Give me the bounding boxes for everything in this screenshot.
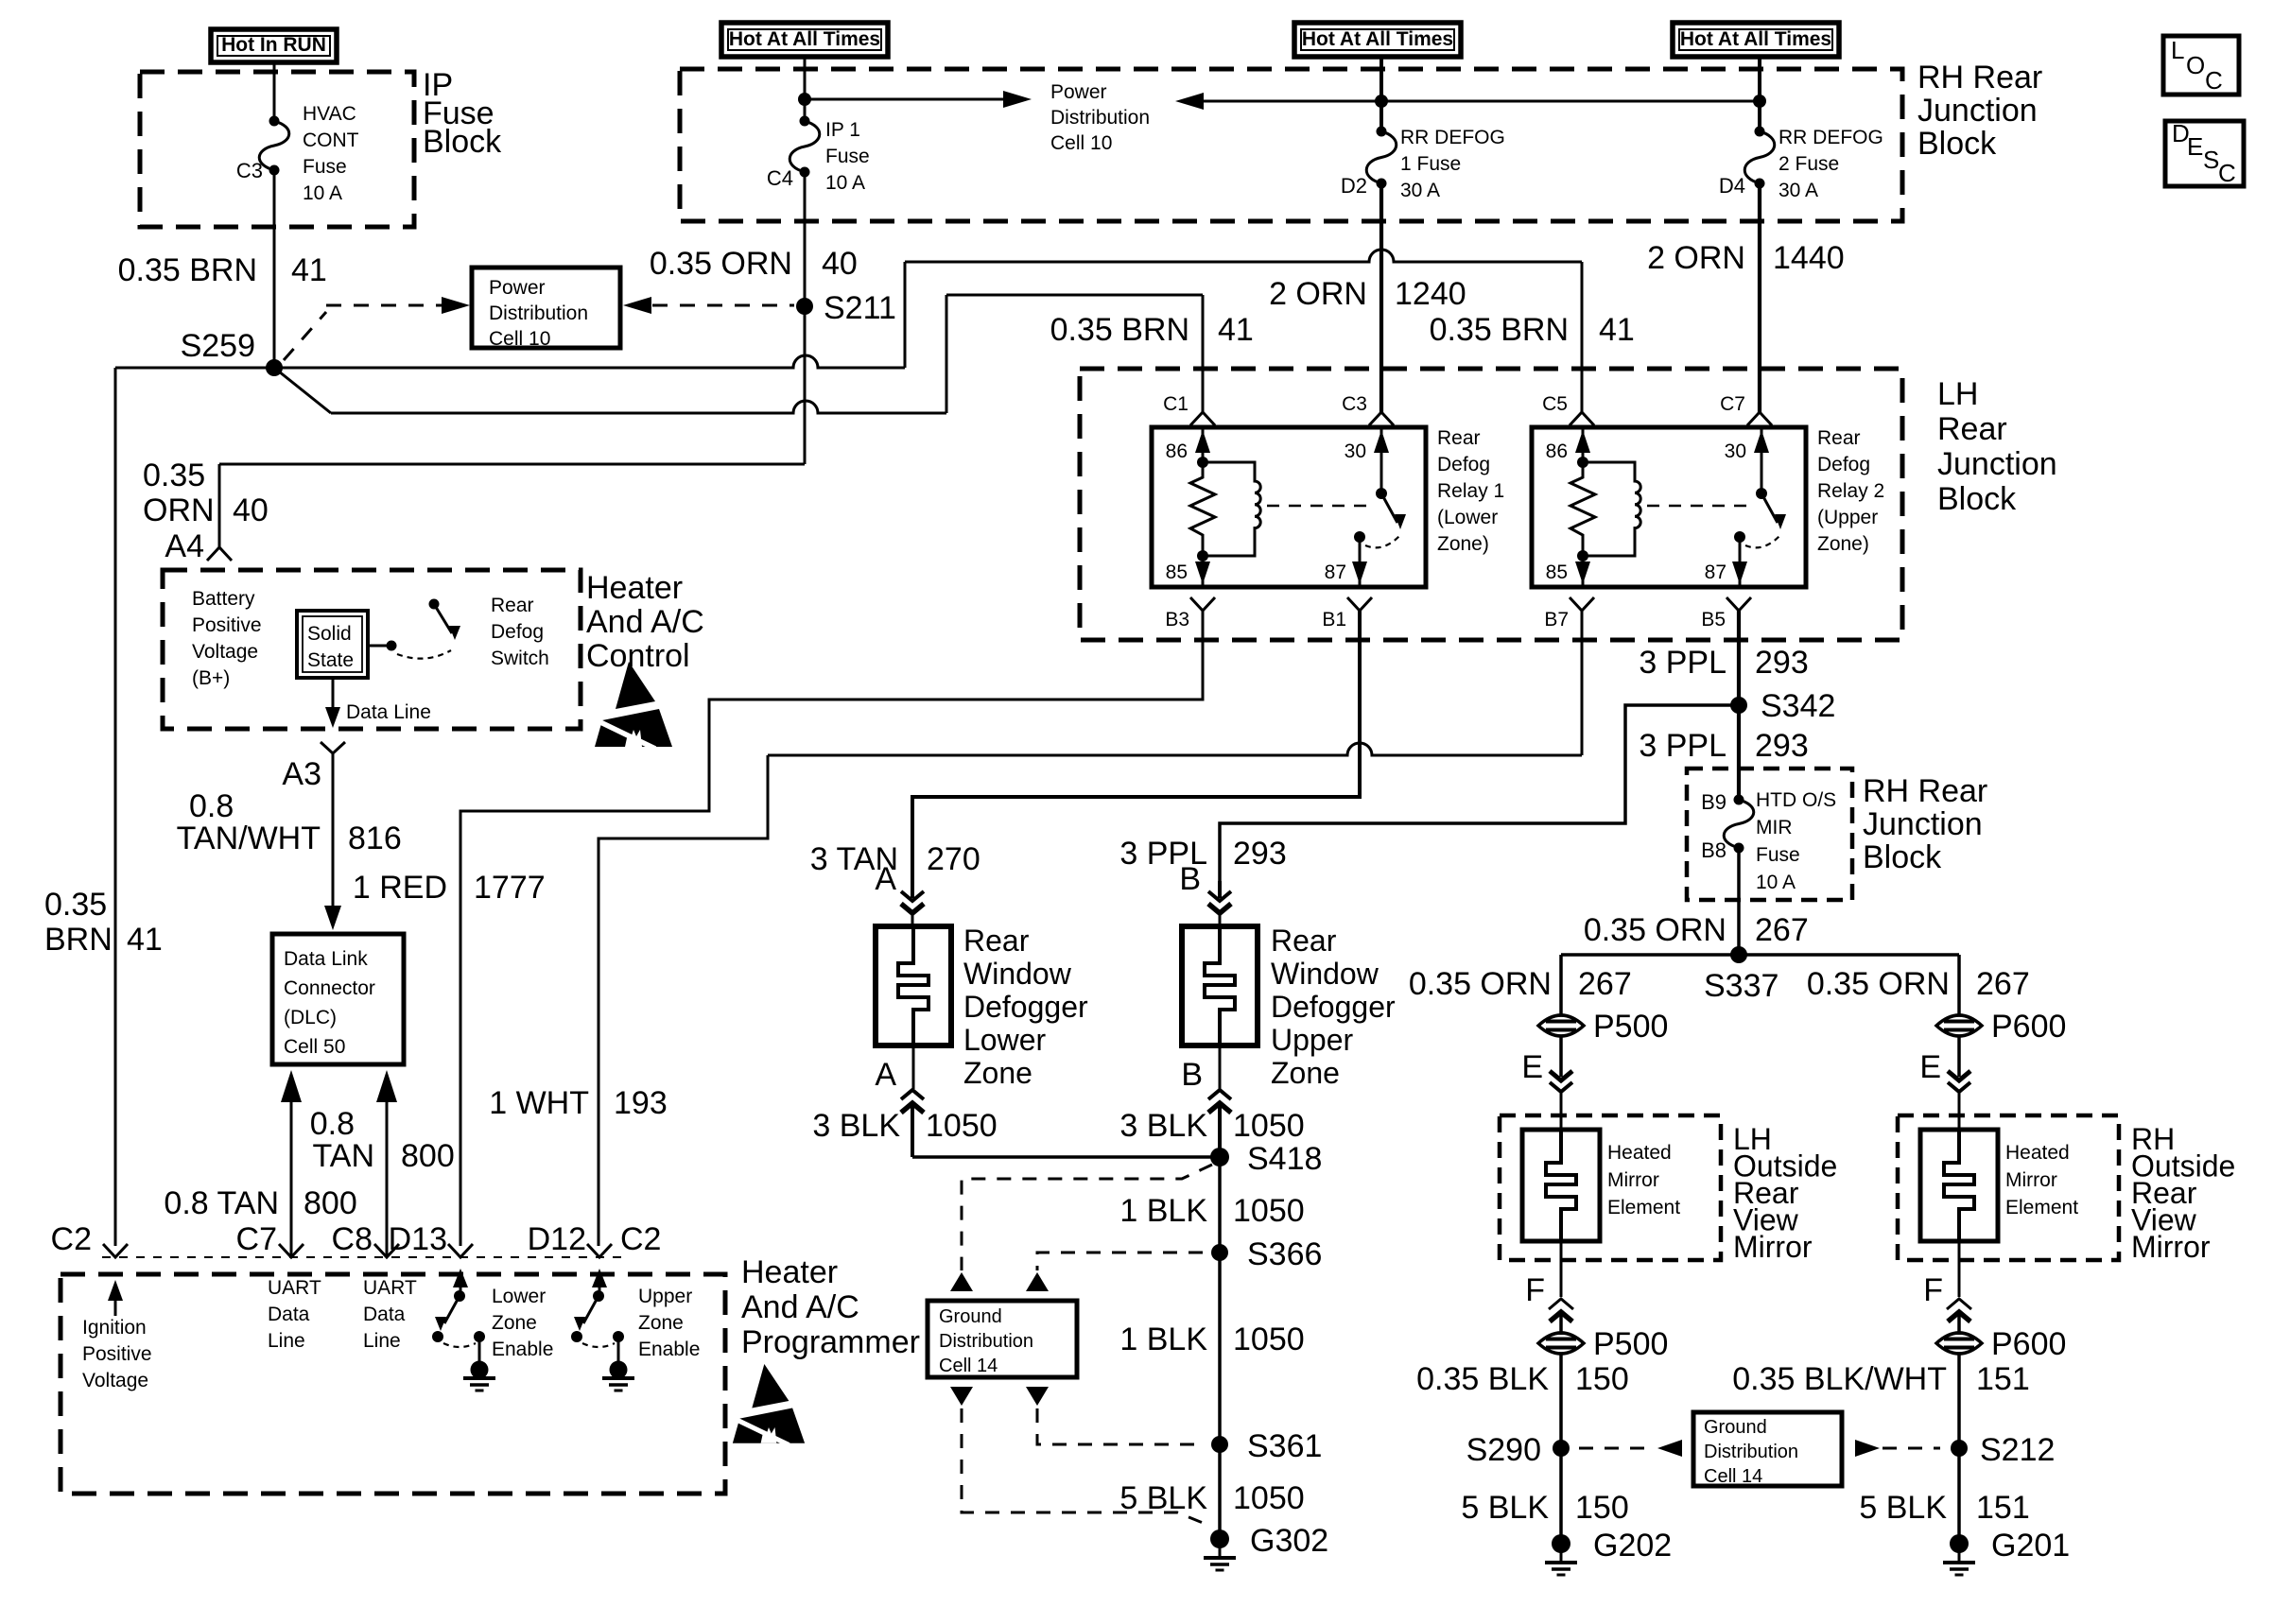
svg-text:41: 41	[127, 922, 163, 958]
svg-text:HTD O/S: HTD O/S	[1756, 789, 1836, 811]
svg-text:40: 40	[822, 246, 858, 282]
wire hot2 to D2 fuse	[1379, 57, 1383, 131]
svg-text:Control: Control	[586, 638, 690, 674]
ground G302	[1210, 1529, 1229, 1548]
svg-text:41: 41	[1218, 312, 1254, 348]
wire down to C1	[1202, 295, 1205, 412]
wire S259 left	[115, 367, 274, 370]
svg-text:Defogger: Defogger	[1271, 990, 1396, 1024]
svg-text:Rear: Rear	[1817, 427, 1861, 449]
svg-text:Fuse: Fuse	[1756, 844, 1800, 866]
svg-text:Programmer: Programmer	[741, 1324, 920, 1360]
svg-text:Window: Window	[1271, 957, 1379, 991]
svg-text:0.8: 0.8	[310, 1106, 355, 1142]
svg-text:1440: 1440	[1773, 240, 1845, 276]
svg-text:0.35: 0.35	[44, 887, 107, 923]
svg-text:10 A: 10 A	[303, 182, 342, 204]
svg-text:0.35 BRN: 0.35 BRN	[1050, 312, 1189, 348]
splice S361	[1211, 1436, 1228, 1453]
svg-text:800: 800	[304, 1185, 357, 1221]
svg-text:C5: C5	[1542, 393, 1568, 415]
dashed wire ground cell to S361	[1026, 1387, 1049, 1406]
svg-text:E: E	[1919, 1049, 1941, 1085]
svg-text:Solid: Solid	[307, 623, 352, 645]
svg-text:41: 41	[1599, 312, 1635, 348]
svg-text:ORN: ORN	[143, 492, 215, 528]
svg-text:30: 30	[1345, 441, 1366, 462]
wire S337 to P500	[1559, 955, 1563, 1015]
wire B to S418	[1218, 1103, 1222, 1157]
svg-text:87: 87	[1325, 561, 1346, 583]
svg-text:S418: S418	[1247, 1141, 1322, 1177]
svg-text:D12: D12	[528, 1221, 586, 1257]
svg-text:0.35 ORN: 0.35 ORN	[1584, 912, 1726, 948]
svg-text:C4: C4	[767, 166, 793, 190]
ground G201	[1950, 1534, 1969, 1553]
svg-text:293: 293	[1233, 836, 1287, 872]
arrowhead left into Power Dist (from D2 line)	[1175, 93, 1204, 110]
wire S342 to defogger upper	[1220, 705, 1739, 881]
svg-text:S212: S212	[1980, 1432, 2055, 1468]
svg-text:Enable: Enable	[492, 1339, 553, 1360]
svg-text:Element: Element	[1607, 1197, 1680, 1218]
splice S418	[1210, 1148, 1229, 1166]
svg-text:S: S	[2203, 146, 2219, 174]
svg-text:E: E	[2187, 132, 2203, 161]
svg-text:Rear: Rear	[963, 924, 1030, 958]
svg-text:Ignition: Ignition	[82, 1317, 147, 1339]
wire D2 to C3	[1379, 183, 1383, 412]
wire element to F left	[1560, 1241, 1563, 1297]
wire B7 to D12 (1 WHT 193)	[1581, 611, 1584, 755]
wire D2/D4 header	[1192, 100, 1760, 103]
svg-text:C8: C8	[332, 1221, 373, 1257]
svg-text:800: 800	[401, 1138, 455, 1174]
svg-text:G201: G201	[1991, 1528, 2070, 1564]
svg-text:Upper: Upper	[638, 1286, 692, 1307]
svg-text:Cell 14: Cell 14	[1704, 1466, 1762, 1487]
wire B1 to defogger lower (3 TAN 270)	[912, 611, 1360, 881]
svg-text:Block: Block	[1917, 126, 1997, 162]
svg-text:S259: S259	[181, 328, 255, 364]
dashed wire ground cell to S212	[1855, 1440, 1880, 1457]
svg-text:3 PPL: 3 PPL	[1639, 728, 1726, 764]
svg-text:30 A: 30 A	[1400, 180, 1440, 201]
connector row dashed line	[102, 1256, 624, 1258]
splice S342	[1730, 697, 1747, 714]
svg-text:HVAC: HVAC	[303, 103, 356, 125]
wire solid state to switch	[368, 645, 391, 648]
wire diag to riser2	[331, 401, 946, 413]
svg-text:Zone): Zone)	[1437, 533, 1489, 555]
svg-text:B7: B7	[1544, 609, 1569, 631]
RH Rear Junction Block dashed box (top)	[680, 69, 1902, 221]
DESC box	[2165, 121, 2244, 186]
RH heated mirror element	[1944, 1130, 1974, 1241]
dashed wire S418 to ground cell	[962, 1165, 1212, 1270]
svg-text:Rear: Rear	[1271, 924, 1337, 958]
svg-text:Rear: Rear	[491, 595, 534, 616]
wire B5 to S342 (3 PPL 293)	[1737, 611, 1741, 800]
wire A3 to DLC	[332, 753, 335, 923]
svg-text:5 BLK: 5 BLK	[1859, 1490, 1947, 1526]
svg-text:2 Fuse: 2 Fuse	[1778, 153, 1839, 175]
svg-text:Block: Block	[423, 124, 502, 160]
dashed arrow S211 to Power Distribution	[623, 297, 651, 314]
svg-text:Element: Element	[2005, 1197, 2078, 1218]
svg-text:Fuse: Fuse	[303, 156, 347, 178]
svg-text:Mirror: Mirror	[1607, 1169, 1659, 1191]
svg-text:Defog: Defog	[1437, 454, 1490, 475]
svg-text:0.35: 0.35	[143, 458, 205, 493]
wire corner to A4	[219, 463, 805, 466]
wire B3 to D13 (1 RED 1777)	[460, 611, 1203, 1246]
svg-text:L: L	[2171, 36, 2184, 64]
wire S259 diagonal	[274, 368, 331, 413]
svg-text:A4: A4	[165, 528, 204, 564]
svg-text:1 RED: 1 RED	[353, 870, 447, 906]
relay Rear Defog Relay 2 (Upper Zone)	[1532, 427, 1806, 587]
Power Distribution Cell 10 box	[472, 268, 620, 348]
svg-text:Voltage: Voltage	[192, 641, 258, 663]
rear defog switch	[387, 641, 397, 651]
svg-text:Distribution: Distribution	[489, 302, 588, 324]
svg-text:RH Rear: RH Rear	[1863, 773, 1987, 809]
svg-text:Rear: Rear	[1937, 411, 2007, 447]
svg-text:1050: 1050	[1233, 1480, 1305, 1516]
svg-text:Block: Block	[1863, 839, 1942, 875]
Data Link Connector box	[272, 934, 404, 1064]
connector P600 lower	[1936, 1333, 1982, 1354]
svg-text:Junction: Junction	[1937, 446, 2057, 482]
svg-text:D4: D4	[1719, 174, 1745, 198]
svg-text:1050: 1050	[1233, 1322, 1305, 1357]
svg-text:0.35 BLK/WHT: 0.35 BLK/WHT	[1732, 1361, 1947, 1397]
svg-text:270: 270	[927, 841, 980, 877]
svg-text:Lower: Lower	[963, 1023, 1047, 1057]
svg-text:1777: 1777	[474, 870, 546, 906]
Ground Distribution Cell 14 box left	[928, 1301, 1077, 1377]
svg-text:86: 86	[1546, 441, 1568, 462]
svg-text:Battery: Battery	[192, 588, 255, 610]
fuse IP 1 10A	[800, 116, 810, 127]
svg-text:P500: P500	[1593, 1326, 1668, 1362]
svg-text:S342: S342	[1761, 688, 1835, 724]
svg-text:TAN/WHT: TAN/WHT	[177, 821, 321, 856]
svg-text:0.35 ORN: 0.35 ORN	[650, 246, 792, 282]
wire P600 to G201	[1957, 1354, 1961, 1544]
svg-text:B: B	[1179, 861, 1201, 897]
rear window defogger lower zone box	[876, 926, 951, 1045]
svg-text:Junction: Junction	[1863, 806, 1983, 842]
svg-text:Positive: Positive	[192, 614, 262, 636]
upper zone enable switch	[599, 1274, 601, 1293]
wire C7 UART up to DLC	[290, 1101, 293, 1257]
svg-text:LH: LH	[1937, 376, 1978, 412]
fuse RR DEFOG 2 30A	[1755, 127, 1765, 137]
svg-text:B1: B1	[1322, 609, 1346, 631]
svg-text:A: A	[875, 861, 896, 897]
svg-text:10 A: 10 A	[825, 172, 865, 194]
svg-text:TAN: TAN	[313, 1138, 374, 1174]
LH heated mirror element	[1546, 1130, 1576, 1241]
wire IP1 fuse to corner	[804, 172, 807, 464]
svg-text:C2: C2	[620, 1221, 661, 1257]
svg-text:Distribution: Distribution	[939, 1331, 1033, 1352]
arrow ignition positive voltage	[114, 1286, 117, 1316]
svg-text:C: C	[2218, 159, 2236, 187]
svg-text:C7: C7	[1720, 393, 1745, 415]
svg-text:G202: G202	[1593, 1528, 1672, 1564]
svg-text:D2: D2	[1341, 174, 1367, 198]
RH heated mirror element box	[1920, 1130, 1998, 1241]
defogger element lower	[898, 926, 928, 1045]
svg-text:1050: 1050	[926, 1108, 998, 1144]
svg-text:Data Line: Data Line	[346, 701, 431, 723]
svg-text:Zone: Zone	[492, 1312, 537, 1334]
svg-text:Mirror: Mirror	[1733, 1230, 1813, 1264]
connector B7	[1570, 597, 1594, 611]
wire S337 to P600	[1957, 955, 1961, 1015]
dashed wire ground cell to G302	[950, 1387, 973, 1406]
wire B8 to S337	[1737, 848, 1741, 955]
svg-text:C7: C7	[236, 1221, 277, 1257]
splice S211	[796, 298, 813, 315]
svg-text:And A/C: And A/C	[741, 1289, 859, 1325]
fuse RR DEFOG 1 30A	[1377, 127, 1387, 137]
power label box Hot In RUN	[211, 29, 337, 62]
svg-text:Distribution: Distribution	[1050, 107, 1150, 129]
RH Rear Junction Block dashed box (fuse)	[1687, 769, 1852, 900]
svg-text:B: B	[1181, 1057, 1203, 1093]
svg-text:A3: A3	[282, 756, 321, 792]
svg-text:S366: S366	[1247, 1236, 1322, 1272]
dashed wire S366 to ground cell	[1037, 1253, 1203, 1270]
wire fuse to S259	[273, 170, 276, 368]
junction dot D4 header	[1753, 95, 1766, 108]
svg-text:Line: Line	[363, 1330, 401, 1352]
svg-text:C3: C3	[236, 159, 263, 182]
IP Fuse Block dashed box	[140, 72, 414, 227]
svg-text:Relay 2: Relay 2	[1817, 480, 1884, 502]
svg-text:Defogger: Defogger	[963, 990, 1088, 1024]
splice S290	[1553, 1440, 1570, 1457]
svg-text:150: 150	[1575, 1361, 1629, 1397]
Heater And A/C Control dashed box	[163, 570, 581, 729]
svg-text:86: 86	[1166, 441, 1188, 462]
wire S259 right to riser	[274, 355, 905, 368]
svg-text:Lower: Lower	[492, 1286, 546, 1307]
connector B5	[1726, 597, 1751, 611]
fuse HVAC CONT 10A	[269, 116, 280, 127]
svg-text:267: 267	[1976, 966, 2030, 1002]
svg-text:3 PPL: 3 PPL	[1639, 645, 1726, 681]
svg-text:85: 85	[1166, 561, 1188, 583]
esd symbol control	[595, 662, 672, 749]
wire 0.35 BRN to C1	[946, 294, 1203, 297]
svg-text:B5: B5	[1701, 609, 1726, 631]
svg-text:151: 151	[1976, 1361, 2030, 1397]
svg-text:Heated: Heated	[2005, 1142, 2070, 1164]
svg-text:P600: P600	[1991, 1009, 2066, 1045]
wire Hot In RUN to fuse	[273, 62, 276, 121]
Heater And A/C Programmer dashed box	[61, 1274, 725, 1494]
svg-text:Mirror: Mirror	[2005, 1169, 2057, 1191]
svg-text:267: 267	[1755, 912, 1809, 948]
LH mirror dashed box	[1500, 1115, 1721, 1260]
connector B1	[1347, 597, 1372, 611]
arrow to Power Distribution text	[805, 98, 1010, 101]
LH heated mirror element box	[1522, 1130, 1600, 1241]
svg-text:Enable: Enable	[638, 1339, 700, 1360]
wire A to S418	[912, 1155, 1220, 1159]
wire riser to C5 feed	[904, 262, 907, 368]
svg-text:5 BLK: 5 BLK	[1461, 1490, 1549, 1526]
svg-text:2 ORN: 2 ORN	[1647, 240, 1745, 276]
wire data line	[332, 678, 335, 722]
LH Rear Junction Block dashed box	[1080, 369, 1902, 640]
svg-text:P500: P500	[1593, 1009, 1668, 1045]
svg-text:85: 85	[1546, 561, 1568, 583]
solid state box	[297, 611, 368, 678]
ground G202	[1552, 1534, 1570, 1553]
splice S212	[1951, 1440, 1968, 1457]
wire element to F right	[1958, 1241, 1961, 1297]
junction dot D2 header	[1375, 95, 1388, 108]
svg-text:B3: B3	[1165, 609, 1189, 631]
svg-text:Relay 1: Relay 1	[1437, 480, 1504, 502]
svg-text:Fuse: Fuse	[825, 146, 870, 167]
wire hot3 to D4 fuse	[1758, 57, 1761, 131]
connector P500 upper	[1538, 1015, 1584, 1036]
svg-text:B8: B8	[1701, 838, 1726, 862]
wire P500 to G202	[1559, 1354, 1563, 1544]
svg-text:IP 1: IP 1	[825, 119, 860, 141]
svg-text:(Lower: (Lower	[1437, 507, 1498, 528]
svg-text:1050: 1050	[1233, 1193, 1305, 1229]
wire 0.35 BRN to C5	[905, 250, 1582, 262]
svg-text:Zone: Zone	[963, 1056, 1032, 1090]
svg-text:40: 40	[233, 492, 269, 528]
svg-text:1 WHT: 1 WHT	[489, 1085, 589, 1121]
svg-text:P600: P600	[1991, 1326, 2066, 1362]
power label box Hot At All Times 1	[721, 23, 888, 57]
esd symbol programmer	[733, 1364, 805, 1445]
junction dot IP1	[798, 93, 811, 106]
power label box Hot At All Times 2	[1294, 23, 1461, 57]
svg-text:87: 87	[1705, 561, 1726, 583]
svg-text:1050: 1050	[1233, 1108, 1305, 1144]
svg-text:Cell 10: Cell 10	[489, 328, 550, 350]
svg-text:Data: Data	[268, 1304, 310, 1325]
svg-text:Rear: Rear	[1437, 427, 1481, 449]
svg-text:Window: Window	[963, 957, 1072, 991]
svg-text:UART: UART	[268, 1277, 321, 1299]
svg-text:0.35 ORN: 0.35 ORN	[1409, 966, 1552, 1002]
svg-text:State: State	[307, 649, 354, 671]
svg-text:10 A: 10 A	[1756, 872, 1796, 893]
svg-text:Hot At All Times: Hot At All Times	[729, 28, 880, 50]
svg-text:0.35 BRN: 0.35 BRN	[118, 252, 257, 288]
svg-text:UART: UART	[363, 1277, 417, 1299]
svg-text:(Upper: (Upper	[1817, 507, 1878, 528]
LOC box	[2163, 36, 2239, 95]
svg-text:151: 151	[1976, 1490, 2030, 1526]
svg-text:293: 293	[1755, 645, 1809, 681]
svg-text:C2: C2	[51, 1221, 92, 1257]
svg-text:Defog: Defog	[1817, 454, 1870, 475]
svg-text:Heated: Heated	[1607, 1142, 1672, 1164]
svg-text:D13: D13	[389, 1221, 447, 1257]
RH mirror dashed box	[1898, 1115, 2119, 1260]
svg-text:F: F	[1923, 1272, 1943, 1308]
svg-text:1240: 1240	[1395, 276, 1466, 312]
svg-text:Cell 14: Cell 14	[939, 1356, 998, 1376]
svg-text:Connector: Connector	[284, 977, 375, 999]
svg-text:Zone: Zone	[638, 1312, 684, 1334]
svg-text:1 BLK: 1 BLK	[1119, 1193, 1207, 1229]
svg-text:Cell 50: Cell 50	[284, 1036, 345, 1058]
svg-text:S290: S290	[1466, 1432, 1541, 1468]
svg-text:0.35 ORN: 0.35 ORN	[1807, 966, 1950, 1002]
svg-text:5 BLK: 5 BLK	[1119, 1480, 1207, 1516]
svg-text:(DLC): (DLC)	[284, 1007, 337, 1028]
Ground Distribution Cell 14 box right	[1693, 1412, 1842, 1486]
svg-text:B9: B9	[1701, 790, 1726, 814]
svg-text:Heater: Heater	[586, 570, 683, 606]
svg-text:(B+): (B+)	[192, 667, 230, 689]
svg-text:Zone: Zone	[1271, 1056, 1340, 1090]
svg-text:Power: Power	[489, 277, 546, 299]
svg-text:BRN: BRN	[44, 922, 113, 958]
svg-text:Data: Data	[363, 1304, 406, 1325]
wire far-left 0.35 BRN 41 down to C2	[114, 368, 117, 1246]
svg-text:A: A	[875, 1057, 896, 1093]
wire down to C5	[1581, 262, 1584, 412]
svg-text:150: 150	[1575, 1490, 1629, 1526]
svg-text:Block: Block	[1937, 481, 2017, 517]
connector P500 lower	[1538, 1333, 1584, 1354]
svg-text:And A/C: And A/C	[586, 604, 704, 640]
svg-text:0.35 BRN: 0.35 BRN	[1430, 312, 1569, 348]
svg-text:C3: C3	[1342, 393, 1367, 415]
svg-text:Mirror: Mirror	[2131, 1230, 2211, 1264]
svg-text:41: 41	[291, 252, 327, 288]
svg-text:S211: S211	[824, 290, 896, 326]
svg-text:Line: Line	[268, 1330, 305, 1352]
svg-text:0.35 BLK: 0.35 BLK	[1416, 1361, 1549, 1397]
svg-text:C1: C1	[1163, 393, 1189, 415]
wire P500 to E	[1559, 1036, 1563, 1077]
svg-text:F: F	[1525, 1272, 1545, 1308]
svg-text:S361: S361	[1247, 1428, 1322, 1464]
svg-text:Ground: Ground	[939, 1306, 1002, 1327]
svg-text:1 Fuse: 1 Fuse	[1400, 153, 1461, 175]
svg-text:Junction: Junction	[1917, 93, 2038, 129]
dashed wire S290 to ground cell	[1657, 1440, 1682, 1457]
rear window defogger upper zone box	[1182, 926, 1258, 1045]
svg-text:293: 293	[1755, 728, 1809, 764]
svg-text:2 ORN: 2 ORN	[1269, 276, 1367, 312]
svg-text:267: 267	[1578, 966, 1632, 1002]
svg-text:MIR: MIR	[1756, 817, 1793, 838]
svg-text:Voltage: Voltage	[82, 1370, 148, 1391]
wire S418 to G302	[1218, 1157, 1222, 1539]
svg-text:Switch: Switch	[491, 648, 549, 669]
wire P600 to E	[1957, 1036, 1961, 1077]
svg-text:0.8 TAN: 0.8 TAN	[164, 1185, 279, 1221]
svg-text:Data Link: Data Link	[284, 948, 368, 970]
